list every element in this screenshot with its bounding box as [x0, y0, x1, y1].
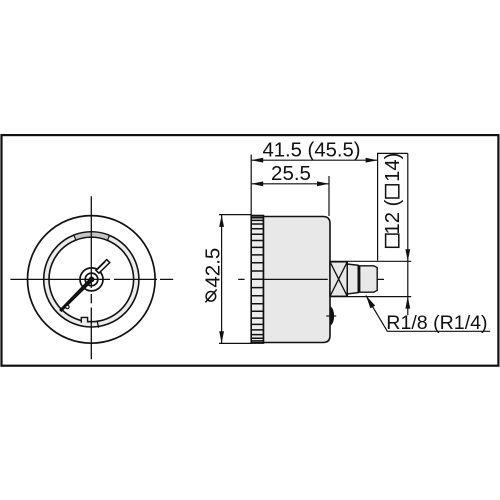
- svg-text:41.5 (45.5): 41.5 (45.5): [262, 140, 360, 162]
- side view: knurled bezel strip: [251, 216, 263, 344]
- gauge front view: outer bezel circle: [28, 216, 156, 344]
- dim 25.5: extension line: [328, 176, 330, 216]
- side view: thread chamfer segment: [347, 264, 358, 294]
- front view: ring band inner circle (dial face): [49, 237, 134, 322]
- dim 25.5: dimension line: [251, 183, 329, 185]
- stop pin: [66, 305, 69, 308]
- plug centerline tick: [326, 315, 336, 317]
- dim 41.5: extension lines: [251, 153, 377, 261]
- front view: gray arc segment at top of ring: [74, 232, 110, 241]
- leader R1/8: [366, 295, 490, 331]
- dim sq12 label (rotated, squares drawn): [382, 153, 404, 248]
- dim o42.5: label: [206, 292, 216, 302]
- svg-text:25.5: 25.5: [271, 162, 311, 185]
- border frame: [2, 135, 499, 366]
- front view vertical centerline: [90, 196, 92, 359]
- side view: threaded stud R1/8: [358, 266, 377, 292]
- svg-text:14): 14): [382, 153, 404, 182]
- svg-text:R1/8 (R1/4): R1/8 (R1/4): [386, 312, 487, 334]
- dim sq12: connector + dimension line: [378, 153, 408, 315]
- dim o42.5: extension lines: [219, 215, 252, 344]
- gauge needle (pointer): [59, 278, 93, 312]
- dim sq12: extension lines from nut: [330, 261, 411, 296]
- side view horizontal centerline: [238, 278, 384, 280]
- front view: tick on ring bottom right: [97, 322, 98, 328]
- dim 41.5: dimension line: [251, 159, 377, 161]
- hub inner circle: [85, 273, 98, 286]
- pointer tail blade: [96, 260, 110, 274]
- front view: notch tab at bottom of ring: [81, 317, 87, 322]
- svg-text:12 (: 12 (: [382, 199, 404, 234]
- side view: blow-out plug (black): [330, 306, 335, 326]
- side view: square nut (with X): [330, 262, 347, 297]
- side view: gauge body: [264, 217, 331, 343]
- front view: ring band outer circle: [44, 232, 139, 327]
- hub outer circle: [80, 268, 103, 291]
- svg-text:42.5: 42.5: [201, 248, 224, 288]
- front view horizontal centerline: [10, 278, 173, 280]
- dim o42.5: dimension line: [221, 215, 223, 343]
- hub center dot: [89, 277, 95, 283]
- knurl lines: [252, 216, 263, 343]
